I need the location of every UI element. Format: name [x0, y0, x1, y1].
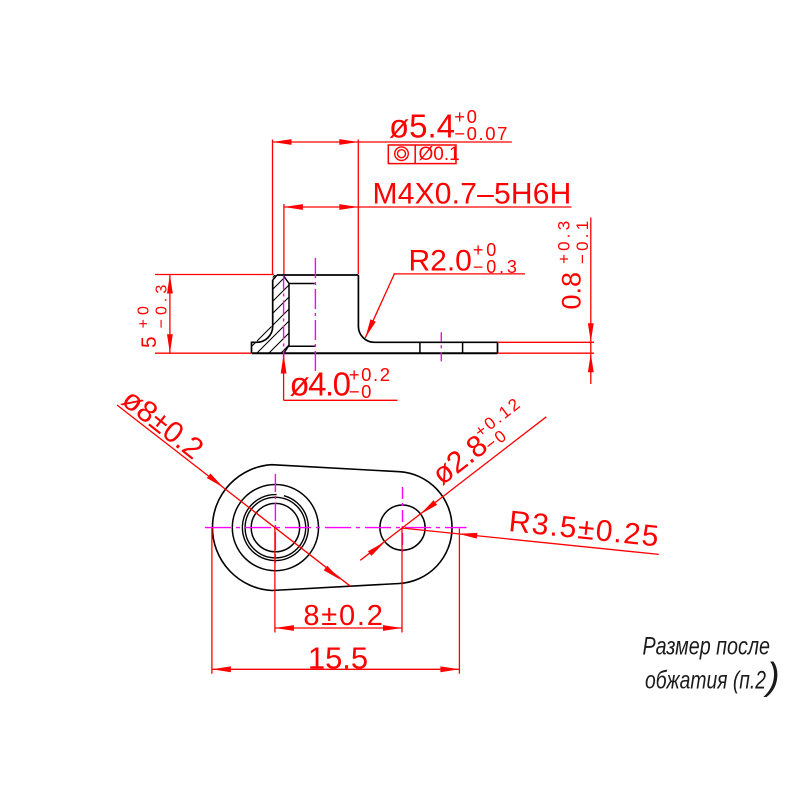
svg-text:5: 5 — [138, 336, 161, 348]
svg-text:ø5.4: ø5.4 — [389, 108, 455, 145]
svg-text:обжатия (п.2: обжатия (п.2 — [645, 667, 766, 695]
svg-text:0.8: 0.8 — [557, 272, 587, 310]
svg-text:R2.0: R2.0 — [409, 245, 472, 278]
svg-text:Ø0.1: Ø0.1 — [419, 144, 460, 165]
svg-text:15.5: 15.5 — [308, 641, 368, 676]
svg-text:−0.07: −0.07 — [454, 123, 509, 144]
svg-text:−0.3: −0.3 — [154, 281, 171, 329]
svg-text:−0: −0 — [349, 381, 373, 402]
svg-text:M4X0.7–5H6H: M4X0.7–5H6H — [373, 178, 572, 211]
svg-text:−0.1: −0.1 — [573, 218, 592, 264]
svg-text:−0.3: −0.3 — [473, 257, 520, 277]
svg-text:+0.3: +0.3 — [555, 218, 574, 264]
svg-text:Размер после: Размер после — [643, 633, 771, 661]
svg-text:8±0.2: 8±0.2 — [303, 600, 384, 632]
svg-text:ø4.0: ø4.0 — [290, 366, 351, 403]
svg-text:+0: +0 — [136, 302, 153, 328]
